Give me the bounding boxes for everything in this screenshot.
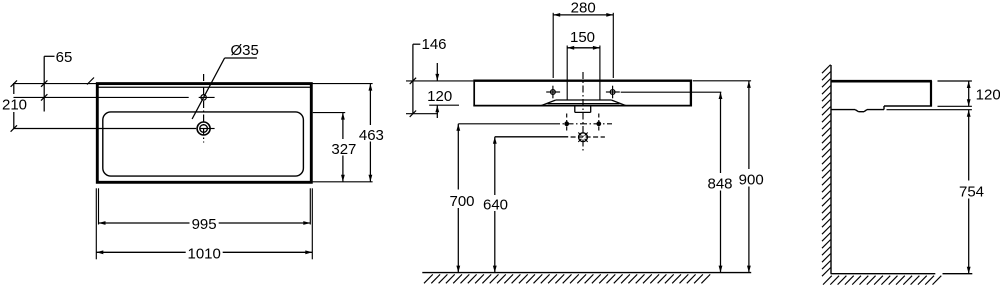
svg-text:640: 640 (483, 196, 508, 213)
svg-text:120: 120 (427, 88, 452, 105)
svg-text:280: 280 (571, 0, 596, 17)
svg-text:900: 900 (739, 171, 764, 188)
svg-text:Ø35: Ø35 (231, 42, 259, 59)
svg-text:754: 754 (959, 183, 984, 200)
svg-text:120: 120 (976, 87, 1000, 104)
svg-text:1010: 1010 (188, 245, 221, 262)
svg-text:995: 995 (192, 216, 217, 233)
svg-text:150: 150 (570, 29, 595, 46)
svg-text:210: 210 (2, 97, 27, 114)
svg-text:65: 65 (56, 49, 73, 66)
svg-text:327: 327 (331, 141, 356, 158)
svg-text:700: 700 (449, 193, 474, 210)
svg-text:848: 848 (707, 175, 732, 192)
svg-text:463: 463 (359, 127, 384, 144)
svg-text:146: 146 (421, 36, 446, 53)
